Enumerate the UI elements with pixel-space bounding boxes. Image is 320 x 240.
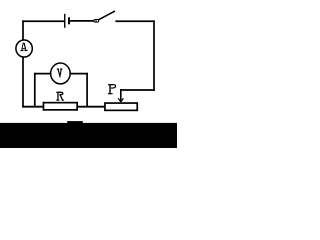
voltmeter branch left vertical wire — [34, 73, 36, 108]
switch pivot terminal circle — [94, 19, 97, 22]
wire right vertical — [153, 20, 155, 90]
wire switch to top-right corner — [115, 20, 154, 22]
battery short plate — [68, 17, 70, 24]
voltmeter label V — [57, 69, 63, 78]
wire horizontal to rheostat wiper — [120, 89, 155, 91]
switch lever (open) — [99, 11, 115, 20]
ammeter label A — [21, 43, 28, 51]
voltmeter branch left horizontal wire — [34, 73, 51, 75]
ammeter A circle — [16, 40, 32, 57]
wire resistor to bottom-left corner — [22, 106, 42, 108]
rheostat P box — [105, 103, 137, 110]
voltmeter V circle — [51, 63, 71, 84]
voltmeter branch right vertical wire — [86, 73, 88, 108]
wire battery to switch — [70, 20, 94, 22]
black bar bump — [67, 121, 83, 123]
label P — [108, 84, 116, 94]
resistor R box — [43, 103, 77, 110]
wire rheostat to resistor — [78, 106, 104, 108]
voltmeter branch right horizontal wire — [70, 73, 88, 75]
switch contact terminal circle — [96, 19, 99, 22]
wire top horizontal (left corner to battery) — [22, 20, 64, 22]
black bottom bar — [0, 123, 177, 148]
label R — [56, 92, 64, 101]
rheostat wiper arrowhead — [118, 98, 123, 102]
wire bottom-left vertical (ammeter bottom to bottom wire) — [22, 57, 24, 107]
wire left vertical (corner down to ammeter top) — [22, 20, 24, 39]
rheostat wiper vertical wire — [120, 89, 122, 102]
battery long plate — [64, 14, 66, 28]
